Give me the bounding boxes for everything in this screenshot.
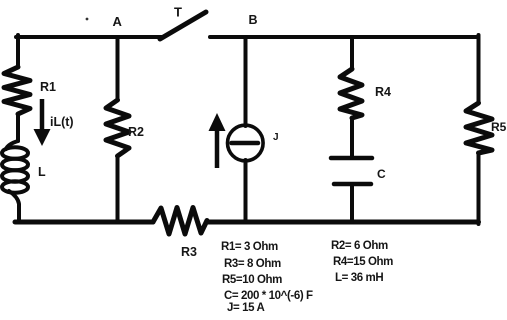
svg-text:iL(t): iL(t): [50, 115, 74, 129]
wire R4 to capacitor: [350, 118, 354, 158]
svg-text:R1: R1: [40, 80, 56, 94]
wire J branch top: [244, 37, 248, 126]
arrow of current source J: [209, 113, 226, 168]
svg-text:R2= 6 Ohm: R2= 6 Ohm: [331, 240, 388, 252]
svg-text:J= 15 A: J= 15 A: [227, 302, 264, 314]
wire bottom rail right: [207, 220, 479, 225]
resistor R3: [153, 208, 207, 235]
svg-text:L: L: [38, 165, 46, 179]
svg-text:R3= 8 Ohm: R3= 8 Ohm: [224, 258, 281, 270]
svg-text:A: A: [113, 14, 123, 29]
capacitor C bottom plate: [334, 182, 371, 187]
wire top rail left (node A segment): [16, 35, 162, 39]
stray dot: [86, 18, 89, 21]
capacitor C top plate: [331, 156, 372, 161]
resistor R4: [340, 69, 362, 118]
svg-text:R3: R3: [181, 245, 197, 259]
wire right rail bottom: [477, 153, 481, 224]
wire L to bottom rail: [9, 191, 19, 222]
wire capacitor to bottom rail: [350, 184, 354, 222]
svg-text:R1= 3 Ohm: R1= 3 Ohm: [221, 241, 278, 253]
resistor R1: [4, 67, 30, 114]
wire right rail top: [477, 35, 481, 103]
wire top rail right (node B segment): [210, 35, 479, 39]
inductor L: [2, 141, 28, 193]
wire R4 branch top: [350, 37, 354, 69]
current source J circle: [228, 125, 264, 161]
svg-text:R2: R2: [128, 125, 144, 139]
svg-text:C: C: [377, 167, 386, 181]
wire bottom rail left: [15, 220, 153, 225]
svg-text:R5=10 Ohm: R5=10 Ohm: [222, 274, 282, 286]
arrow iL(t): [34, 99, 51, 146]
wire R1 to L: [16, 114, 20, 141]
svg-text:C= 200 * 10^(-6) F: C= 200 * 10^(-6) F: [224, 290, 313, 302]
svg-text:R4: R4: [375, 85, 391, 99]
switch T blade: [160, 12, 206, 39]
svg-text:R5: R5: [491, 120, 507, 134]
svg-text:T: T: [174, 5, 182, 20]
current source J minus bar: [232, 141, 259, 146]
svg-text:B: B: [249, 13, 258, 27]
resistor R2: [106, 100, 129, 156]
wire J branch bottom: [244, 160, 248, 222]
svg-text:L= 36 mH: L= 36 mH: [335, 272, 383, 284]
svg-text:R4=15 Ohm: R4=15 Ohm: [333, 256, 393, 268]
wire left rail top: [16, 35, 20, 67]
wire R2 branch top: [116, 37, 120, 100]
svg-text:J: J: [273, 132, 279, 143]
resistor R5: [466, 103, 492, 153]
wire R2 branch bottom: [116, 156, 120, 222]
